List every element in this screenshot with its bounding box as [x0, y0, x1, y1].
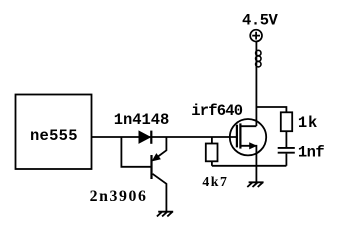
transistor Q1 2n3906 base bar: [150, 155, 152, 179]
wire: ne555 output to MOSFET gate (node at y=137): [91, 136, 237, 138]
MOSFET channel bar: [239, 123, 241, 148]
MOSFET gate bar: [236, 125, 238, 148]
wire: source to ground: [255, 166, 257, 183]
ground GND1 under transistor: [157, 212, 173, 217]
MOSFET source arrowhead: [250, 143, 256, 149]
MOSFET source lead with arrow: [240, 146, 256, 166]
svg-text:ne555: ne555: [30, 127, 78, 145]
power source circle with plus: [250, 30, 262, 42]
wire: drain node branch to RC snubber: [256, 107, 286, 112]
svg-text:4k7: 4k7: [202, 174, 228, 189]
resistor R2 4k7 body: [206, 144, 218, 162]
svg-text:irf640: irf640: [191, 102, 243, 120]
diode D1 1n4148 triangle: [139, 131, 150, 143]
wire: supply to inductor, inductor L1 coil, down to drain node: [255, 42, 257, 127]
MOSFET M1 irf640 body circle: [230, 119, 266, 155]
svg-text:1k: 1k: [298, 114, 318, 132]
wire: cap bottom to rail: [285, 154, 287, 166]
wire: junction down to 2n3906 base: [121, 137, 151, 167]
capacitor C1 1nf plates: [278, 148, 295, 153]
inductor L1 loops: [256, 50, 261, 55]
MOSFET drain lead: [240, 125, 256, 127]
svg-text:1n4148: 1n4148: [114, 111, 169, 129]
transistor Q1 emitter wire from node: [155, 137, 167, 159]
wire: 4k7 bottom to rail: [211, 161, 213, 166]
ne555 block U1: [16, 95, 92, 170]
svg-text:1nf: 1nf: [298, 143, 325, 161]
svg-text:2n3906: 2n3906: [90, 188, 148, 205]
resistor R1 1k body: [281, 112, 292, 131]
svg-text:4.5V: 4.5V: [242, 12, 279, 30]
ground GND2 under MOSFET source: [247, 182, 263, 187]
transistor Q1 emitter arrowhead: [152, 154, 160, 161]
transistor Q1 collector wire to ground: [153, 174, 167, 212]
diode D1 cathode bar: [150, 131, 152, 144]
wire: gate node down to 4k7: [211, 137, 213, 144]
wire: 1k to 1nf: [285, 131, 287, 147]
wire: bottom rail 4k7 to cap: [212, 165, 287, 167]
